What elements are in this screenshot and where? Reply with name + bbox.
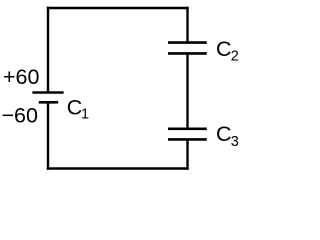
wire right side middle (C2 down to C3) [186,54,188,129]
wire right side upper (top corner down to C2) [186,7,188,42]
svg-text:C: C [216,122,232,146]
wire left side lower (C1 minus plate down to bottom corner) [47,103,49,170]
svg-text:C: C [216,37,232,61]
wire right side lower (C3 down to bottom corner) [186,140,188,170]
svg-text:3: 3 [231,134,239,150]
capacitor C3 bottom plate [168,138,207,141]
wire bottom side [47,167,189,169]
capacitor C2 top plate [168,41,207,44]
capacitor C2 bottom plate [168,52,207,55]
svg-text:+60: +60 [3,65,40,89]
capacitor C3 top plate [168,128,207,131]
capacitor C1 bottom (negative) plate [39,101,58,104]
svg-text:1: 1 [81,107,89,123]
svg-text:2: 2 [231,49,239,65]
wire top side [47,7,189,9]
wire left side upper (top corner down to C1 plus plate) [47,7,49,92]
capacitor C1 top (positive) plate [32,91,63,94]
svg-text:C: C [67,96,83,120]
svg-text:−60: −60 [2,104,39,128]
